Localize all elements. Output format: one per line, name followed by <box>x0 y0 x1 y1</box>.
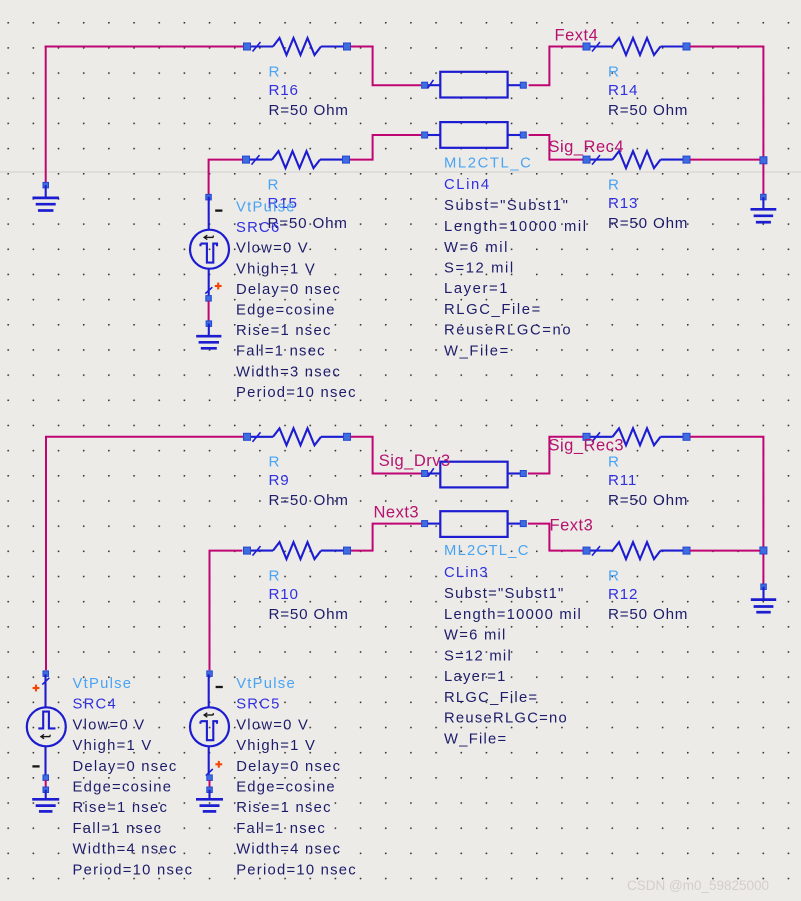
svg-text:Vlow=0 V: Vlow=0 V <box>73 717 146 733</box>
wire <box>529 135 583 160</box>
svg-text:Vhigh=1 V: Vhigh=1 V <box>236 738 316 754</box>
label SRC6 parameters <box>236 199 357 401</box>
svg-text:R12: R12 <box>608 586 638 603</box>
svg-text:Rise=1 nsec: Rise=1 nsec <box>73 800 169 816</box>
wire <box>762 164 764 195</box>
minus polarity mark SRC6 <box>215 209 222 211</box>
node label Sig_Drv3 <box>379 452 451 470</box>
svg-text:CLin4: CLin4 <box>444 177 491 193</box>
wire <box>45 46 244 48</box>
ground G6 (below SRC5) <box>196 787 223 811</box>
svg-text:Rise=1 nsec: Rise=1 nsec <box>236 323 332 339</box>
svg-text:R=50 Ohm: R=50 Ohm <box>269 492 349 509</box>
svg-text:Vhigh=1 V: Vhigh=1 V <box>236 261 316 277</box>
svg-text:R=50 Ohm: R=50 Ohm <box>608 492 688 509</box>
pin 1 tick SRC6 <box>205 287 212 293</box>
svg-text:R=50 Ohm: R=50 Ohm <box>608 606 688 623</box>
junction <box>760 547 767 554</box>
svg-text:Width=4 nsec: Width=4 nsec <box>236 842 341 858</box>
svg-text:W_File=: W_File= <box>444 343 510 359</box>
ground G5 (below SRC4) <box>32 787 59 811</box>
pin 1 tick SRC4 <box>42 678 49 685</box>
svg-text:ReuseRLGC=no: ReuseRLGC=no <box>444 711 568 727</box>
label CLin3 parameters <box>444 543 582 747</box>
resistor R13 <box>583 151 690 168</box>
wire <box>209 780 211 787</box>
voltage source SRC4 (VtPulse) <box>27 674 66 777</box>
svg-text:R11: R11 <box>608 472 637 489</box>
label R12 value R=50 Ohm <box>608 567 688 623</box>
minus polarity mark SRC5 <box>216 686 223 688</box>
svg-text:Vlow=0 V: Vlow=0 V <box>236 241 309 257</box>
svg-text:R: R <box>268 176 280 193</box>
resistor R15 <box>243 151 350 168</box>
pin square <box>206 194 212 200</box>
resistor R14 <box>583 38 690 55</box>
svg-text:R: R <box>608 567 620 584</box>
svg-text:R14: R14 <box>608 82 638 99</box>
ground G1 (top left) <box>32 182 59 210</box>
svg-text:SRC5: SRC5 <box>236 697 280 713</box>
coupled line ML2CTL_C CLin3 line 1 <box>422 462 527 488</box>
label R9 value R=50 Ohm <box>269 454 349 510</box>
svg-text:R: R <box>608 63 620 80</box>
wire <box>349 135 421 160</box>
svg-text:Period=10 nsec: Period=10 nsec <box>73 863 194 879</box>
label CLin4 parameters <box>444 155 588 359</box>
wire <box>690 437 763 547</box>
label R14 value R=50 Ohm <box>608 63 688 119</box>
svg-text:S=12 mil: S=12 mil <box>444 261 515 277</box>
coupled line ML2CTL_C CLin4 line 2 <box>422 122 527 148</box>
plus polarity mark SRC6 <box>215 283 222 290</box>
svg-text:Width=3 nsec: Width=3 nsec <box>236 364 341 380</box>
svg-text:S=12 mil: S=12 mil <box>444 649 512 665</box>
label R16 value R=50 Ohm <box>269 63 349 119</box>
node label Fext3 <box>550 516 594 534</box>
svg-text:VtPulse: VtPulse <box>236 199 296 215</box>
voltage source SRC5 (VtPulse) <box>190 674 229 777</box>
node label Sig_Rec3 <box>549 436 625 454</box>
svg-text:Period=10 nsec: Period=10 nsec <box>236 385 357 401</box>
svg-text:ML2CTL_C: ML2CTL_C <box>444 543 530 559</box>
svg-text:Sig_Rec3: Sig_Rec3 <box>549 436 625 454</box>
svg-text:CSDN @m0_59825000: CSDN @m0_59825000 <box>627 878 769 893</box>
svg-text:Subst="Subst1": Subst="Subst1" <box>444 198 569 214</box>
svg-text:Delay=0 nsec: Delay=0 nsec <box>236 759 341 775</box>
wire <box>45 47 47 184</box>
resistor R10 <box>244 542 351 559</box>
coupled line ML2CTL_C CLin3 line 2 <box>422 511 527 537</box>
node label Sig_Rec4 <box>549 138 625 156</box>
svg-text:Next3: Next3 <box>374 504 420 522</box>
svg-text:Edge=cosine: Edge=cosine <box>73 780 173 796</box>
svg-text:R=50 Ohm: R=50 Ohm <box>608 102 688 119</box>
node label Next3 <box>374 504 420 522</box>
svg-text:Fext3: Fext3 <box>550 516 594 534</box>
svg-text:Sig_Rec4: Sig_Rec4 <box>549 138 625 156</box>
svg-text:Sig_Drv3: Sig_Drv3 <box>379 452 451 470</box>
svg-text:Length=10000 mil: Length=10000 mil <box>444 219 588 235</box>
svg-text:R=50 Ohm: R=50 Ohm <box>608 215 688 232</box>
svg-text:Rise=1 nsec: Rise=1 nsec <box>236 800 332 816</box>
resistor R11 <box>583 428 690 445</box>
svg-text:Vhigh=1 V: Vhigh=1 V <box>73 738 153 754</box>
resistor R12 <box>583 542 690 559</box>
pin square <box>43 671 49 677</box>
wire <box>210 551 243 671</box>
pin square <box>43 775 49 781</box>
ground G3 (below SRC6) <box>196 321 221 348</box>
svg-text:Fext4: Fext4 <box>555 27 599 45</box>
label R13 value R=50 Ohm <box>608 176 688 232</box>
wire <box>528 437 583 474</box>
ground G2 (top right) <box>751 194 777 222</box>
svg-text:R: R <box>269 63 281 80</box>
wire <box>46 437 243 670</box>
resistor R16 <box>244 38 351 55</box>
svg-text:Length=10000 mil: Length=10000 mil <box>444 607 582 623</box>
svg-text:Period=10 nsec: Period=10 nsec <box>236 863 357 879</box>
svg-text:VtPulse: VtPulse <box>236 676 296 692</box>
svg-text:SRC6: SRC6 <box>236 220 280 236</box>
svg-text:Fall=1 nsec: Fall=1 nsec <box>236 344 326 360</box>
voltage source SRC6 (VtPulse) <box>190 197 229 300</box>
wire <box>45 780 47 787</box>
svg-text:Delay=0 nsec: Delay=0 nsec <box>73 759 178 775</box>
svg-text:ReuseRLGC=no: ReuseRLGC=no <box>444 323 572 339</box>
pin square <box>207 775 213 781</box>
coupled line ML2CTL_C CLin4 line 1 <box>422 72 527 98</box>
svg-text:CLin3: CLin3 <box>444 565 489 581</box>
label R15 value R=50 Ohm <box>268 176 348 232</box>
svg-text:W=6 mil: W=6 mil <box>444 240 509 256</box>
wire <box>690 47 763 158</box>
svg-text:W_File=: W_File= <box>444 731 507 747</box>
svg-text:ML2CTL_C: ML2CTL_C <box>444 155 532 171</box>
wire <box>351 47 421 86</box>
label SRC5 parameters <box>236 676 357 879</box>
wire <box>208 301 210 321</box>
svg-text:Vlow=0 V: Vlow=0 V <box>236 717 309 733</box>
junction <box>760 157 767 164</box>
svg-text:Layer=1: Layer=1 <box>444 669 507 685</box>
svg-text:R9: R9 <box>269 472 290 489</box>
wire <box>529 47 583 86</box>
svg-text:Fall=1 nsec: Fall=1 nsec <box>73 821 163 837</box>
svg-text:R: R <box>608 454 620 471</box>
svg-text:SRC4: SRC4 <box>73 697 117 713</box>
label R10 value R=50 Ohm <box>269 567 349 623</box>
watermark <box>627 878 769 893</box>
svg-text:VtPulse: VtPulse <box>73 676 133 692</box>
pin 1 tick SRC5 <box>206 769 213 776</box>
svg-text:R: R <box>269 454 281 471</box>
wire <box>690 159 760 161</box>
svg-text:R: R <box>269 567 281 584</box>
svg-text:Subst="Subst1": Subst="Subst1" <box>444 586 565 602</box>
pin square <box>206 296 212 302</box>
plus polarity mark SRC5 <box>215 761 222 768</box>
svg-text:R10: R10 <box>269 586 299 603</box>
svg-text:Layer=1: Layer=1 <box>444 281 509 297</box>
svg-text:Fall=1 nsec: Fall=1 nsec <box>236 821 326 837</box>
svg-text:Width=4 nsec: Width=4 nsec <box>73 842 178 858</box>
wire <box>209 160 243 195</box>
svg-text:R13: R13 <box>608 195 638 212</box>
svg-text:Edge=cosine: Edge=cosine <box>236 303 336 319</box>
resistor R9 <box>244 428 351 445</box>
wire <box>762 554 764 584</box>
label R11 value R=50 Ohm <box>608 454 688 510</box>
svg-text:R: R <box>608 176 620 193</box>
minus polarity mark SRC4 <box>32 765 39 767</box>
wire <box>690 550 760 552</box>
svg-text:R=50 Ohm: R=50 Ohm <box>269 102 349 119</box>
svg-text:R16: R16 <box>269 82 299 99</box>
label SRC4 parameters <box>73 676 194 879</box>
wire <box>351 437 422 474</box>
svg-text:Edge=cosine: Edge=cosine <box>236 780 336 796</box>
svg-text:RLGC_File=: RLGC_File= <box>444 302 542 318</box>
ground G4 (bottom right) <box>751 584 776 612</box>
pin square <box>207 671 213 677</box>
plus polarity mark SRC4 <box>33 685 40 692</box>
node label Fext4 <box>555 27 599 45</box>
svg-text:Delay=0 nsec: Delay=0 nsec <box>236 282 341 298</box>
svg-text:RLGC_File=: RLGC_File= <box>444 690 538 706</box>
svg-text:W=6 mil: W=6 mil <box>444 628 507 644</box>
svg-text:R=50 Ohm: R=50 Ohm <box>269 606 349 623</box>
page seam line <box>0 171 801 173</box>
wire <box>349 524 421 551</box>
wire <box>528 524 583 551</box>
